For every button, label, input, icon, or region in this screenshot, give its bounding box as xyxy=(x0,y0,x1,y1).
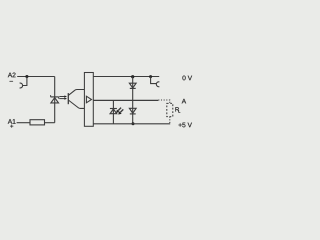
label plus xyxy=(10,125,13,128)
wire diode column vertical xyxy=(132,77,134,124)
wire status LED column xyxy=(112,100,114,124)
wire 0V terminal drop xyxy=(151,77,157,84)
terminal socket 0V xyxy=(156,82,159,87)
node dot 0V terminal xyxy=(149,75,152,78)
diode D3 bottom (+5V clamp) xyxy=(129,108,136,114)
label A xyxy=(182,99,186,104)
wire top rail 0V xyxy=(93,76,159,78)
op-amp output block box xyxy=(84,73,93,127)
node junction dot A2 xyxy=(25,75,28,78)
wire resistor to LED column xyxy=(45,122,55,124)
LED optocoupler input D1 xyxy=(51,95,59,103)
resistor RL load dashed xyxy=(167,103,173,116)
wire A2 lead xyxy=(17,76,55,78)
wire dotted external A xyxy=(158,100,170,103)
node dot bottom rail xyxy=(132,122,135,125)
transistor emitter xyxy=(68,100,84,108)
label A2 xyxy=(8,73,16,78)
wire A1 lead xyxy=(17,122,30,124)
label RL xyxy=(175,107,179,111)
light arrows optocoupler xyxy=(59,95,67,99)
wire A2 terminal drop xyxy=(22,77,27,86)
light emission arrows status LED xyxy=(116,108,123,115)
amplifier triangle xyxy=(86,96,91,103)
label minus xyxy=(10,80,13,83)
node dot diode column top xyxy=(131,75,134,78)
resistor input series xyxy=(30,120,45,125)
wire left vertical column xyxy=(54,77,56,123)
LED status D4 xyxy=(110,109,117,114)
label A1 xyxy=(8,119,16,124)
label 0 V xyxy=(182,76,192,81)
wire bottom rail +5V xyxy=(93,123,170,125)
label +5 V xyxy=(179,123,192,128)
terminal socket A2 xyxy=(20,83,23,88)
diode D2 top (0V clamp) xyxy=(129,83,136,88)
transistor photo Q1 base bar xyxy=(67,93,69,104)
transistor collector xyxy=(68,90,84,96)
wire dotted RL to +5V rail xyxy=(169,117,171,124)
wire middle rail A output xyxy=(93,99,158,101)
